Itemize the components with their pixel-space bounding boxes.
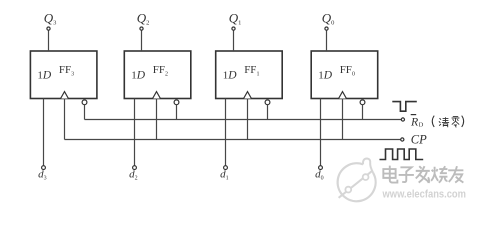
CP clock pulse train waveform xyxy=(380,149,424,160)
wire FF0 RD bubble to RD bus xyxy=(362,105,364,120)
RD clear negative pulse waveform xyxy=(392,102,417,112)
input terminal d1 xyxy=(224,166,228,170)
svg-text:CP: CP xyxy=(411,133,427,147)
svg-text:1D: 1D xyxy=(318,70,333,82)
wire d1 data input xyxy=(225,99,227,166)
wire RD clear bus xyxy=(85,119,402,121)
wire Q3 output stem xyxy=(48,30,50,51)
inversion bubble on RD input (FF3) xyxy=(82,100,87,105)
wire FF2 RD bubble to RD bus xyxy=(176,105,178,120)
input terminal d3 xyxy=(42,166,46,170)
wire FF3 RD bubble to RD bus xyxy=(84,105,86,120)
svg-text:d1: d1 xyxy=(220,169,229,182)
watermark logo circle xyxy=(338,159,376,202)
svg-text:d3: d3 xyxy=(38,169,47,182)
output terminal Q1 xyxy=(232,27,235,30)
watermark brand text xyxy=(384,167,464,184)
wire Q2 output stem xyxy=(141,30,143,51)
wire Q1 output stem xyxy=(233,30,235,51)
svg-text:Q2: Q2 xyxy=(137,10,150,26)
svg-text:1D: 1D xyxy=(37,70,52,82)
input terminal d2 xyxy=(133,166,137,170)
wire Q0 output stem xyxy=(326,30,328,51)
wire d2 data input xyxy=(134,99,136,166)
svg-text:1D: 1D xyxy=(223,70,238,82)
wire FF0 clock input to CP bus xyxy=(342,99,344,140)
label (qing ling) clear annotation xyxy=(432,116,463,128)
svg-text:d0: d0 xyxy=(315,169,324,182)
wire d3 data input xyxy=(43,99,45,166)
svg-text:Q1: Q1 xyxy=(229,10,242,26)
wire FF2 clock input to CP bus xyxy=(156,99,158,140)
flip-flop FF1 box xyxy=(216,51,283,99)
output terminal Q0 xyxy=(325,27,328,30)
wire CP clock bus xyxy=(65,139,401,141)
wire FF3 clock input to CP bus xyxy=(64,99,66,140)
wire d0 data input xyxy=(320,99,322,166)
label RD (active-low clear) xyxy=(410,115,424,129)
svg-text:1D: 1D xyxy=(131,70,146,82)
inversion bubble on RD input (FF0) xyxy=(360,100,365,105)
clock edge triangle (FF3) xyxy=(61,92,69,99)
flip-flop FF3 box xyxy=(30,51,97,99)
output terminal Q2 xyxy=(140,27,143,30)
svg-text:Q0: Q0 xyxy=(322,10,335,26)
flip-flop FF2 box xyxy=(124,51,191,99)
clock edge triangle (FF1) xyxy=(244,92,252,99)
input terminal d0 xyxy=(319,166,323,170)
svg-text:Q3: Q3 xyxy=(44,10,57,26)
node CP bus terminal xyxy=(401,138,404,141)
svg-text:www.elecfans.com: www.elecfans.com xyxy=(382,189,466,201)
clock edge triangle (FF0) xyxy=(339,92,347,99)
svg-text:d2: d2 xyxy=(129,169,138,182)
svg-text:D: D xyxy=(419,121,424,128)
wire FF1 clock input to CP bus xyxy=(247,99,249,140)
output terminal Q3 xyxy=(47,27,50,30)
clock edge triangle (FF2) xyxy=(153,92,161,99)
inversion bubble on RD input (FF1) xyxy=(265,100,270,105)
wire FF1 RD bubble to RD bus xyxy=(267,105,269,120)
flip-flop FF0 box xyxy=(311,51,378,99)
inversion bubble on RD input (FF2) xyxy=(174,100,179,105)
node RD bus terminal xyxy=(401,118,404,121)
